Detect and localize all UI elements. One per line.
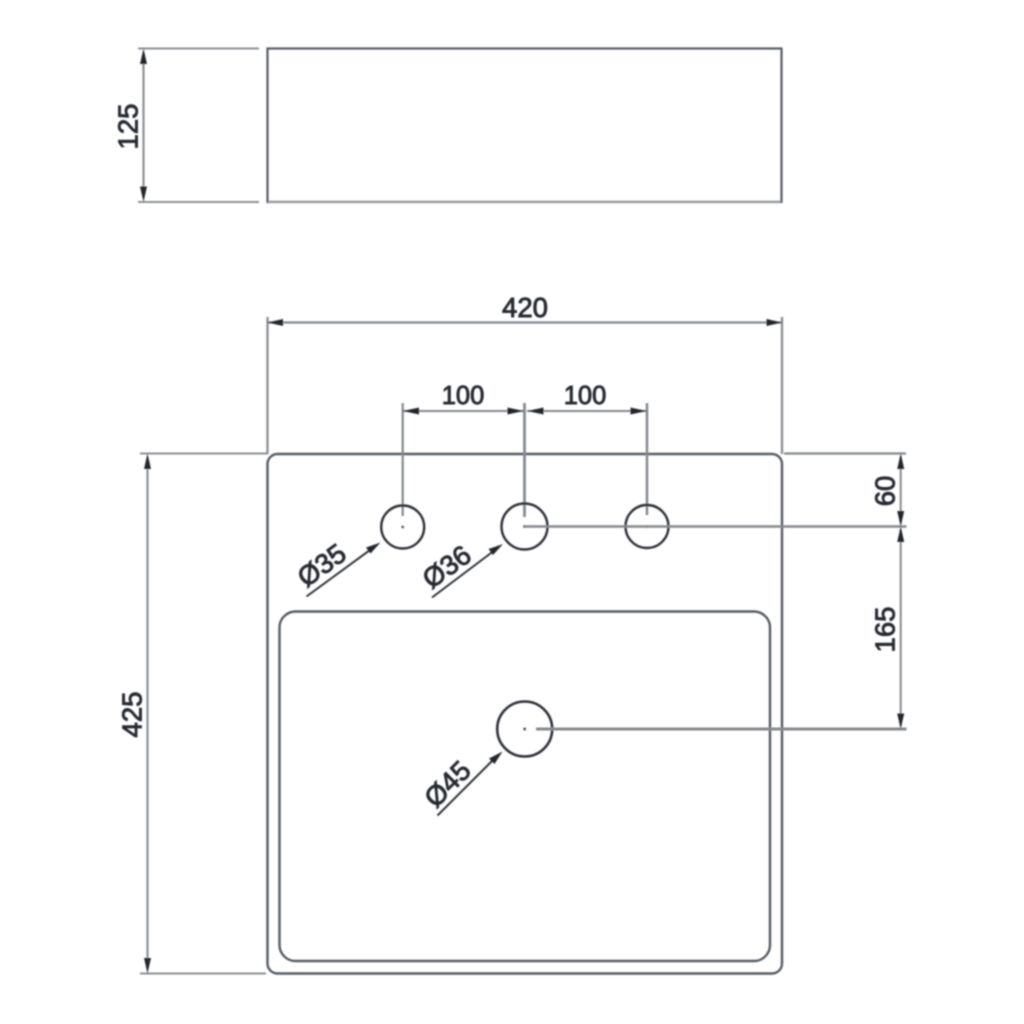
dimension 100 left extension line (402, 403, 404, 516)
faucet hole circle middle (502, 504, 548, 550)
dimension 420 label (502, 292, 548, 323)
drain hole circle (497, 702, 552, 757)
dimension 420 line (268, 319, 783, 326)
leader line for drain Ø45 (438, 752, 503, 816)
label Ø36 (417, 539, 477, 595)
top edge extension right (784, 452, 906, 454)
hole centerline horizontal (525, 525, 907, 528)
dimension 125 label (112, 104, 143, 150)
drain centerline horizontal (536, 728, 907, 731)
dimension 425 label (116, 692, 147, 738)
dimension 100 middle extension line (523, 403, 526, 517)
side view outline (268, 49, 782, 203)
dimension 100 right extension line (646, 403, 649, 515)
dimension 60 line (897, 454, 904, 527)
dimension 125 extension ticks (138, 49, 259, 203)
dimension 420 extension lines (268, 317, 783, 454)
svg-text:100: 100 (442, 382, 485, 410)
dimension 100 left line (403, 408, 525, 415)
dimension 165 line (897, 527, 904, 730)
svg-text:165: 165 (869, 607, 900, 653)
dimension 100 left label (442, 382, 485, 410)
dimension 100 right label (564, 382, 607, 410)
main square outline (268, 454, 783, 974)
svg-text:125: 125 (112, 104, 143, 150)
leader line for hole Ø35 (307, 543, 381, 597)
svg-text:60: 60 (869, 476, 900, 507)
dimension 425 extension ticks (140, 454, 268, 974)
faucet hole circle left (381, 506, 424, 549)
leader line for hole Ø36 (432, 544, 503, 598)
inner basin outline (280, 612, 771, 962)
dimension 425 line (144, 454, 151, 974)
dimension 60 label (869, 476, 900, 507)
svg-text:Ø45: Ø45 (418, 755, 477, 814)
dimension 125 line (140, 49, 147, 203)
dimension 165 label (869, 607, 900, 653)
svg-text:425: 425 (116, 692, 147, 738)
svg-text:100: 100 (564, 382, 607, 410)
label Ø35 (292, 537, 352, 593)
faucet hole circle right (626, 505, 669, 548)
svg-text:420: 420 (502, 292, 548, 323)
label Ø45 (418, 755, 477, 814)
dimension 100 right line (527, 408, 647, 415)
